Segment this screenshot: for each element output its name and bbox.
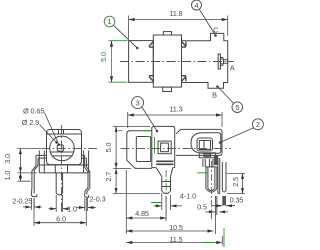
side body left part xyxy=(127,131,152,169)
arrows 4-1.0 xyxy=(156,204,162,207)
front shield side plates xyxy=(39,151,88,173)
svg-text:10.5: 10.5 xyxy=(169,223,183,232)
side power pin centerline xyxy=(210,161,212,219)
0.5 dim xyxy=(205,196,228,215)
svg-text:A: A xyxy=(230,64,235,73)
dim 5.0 top view (green) xyxy=(109,41,128,82)
svg-text:2-0.25: 2-0.25 xyxy=(12,196,32,205)
svg-text:11.8: 11.8 xyxy=(169,9,182,18)
arrows 4.85 xyxy=(126,216,132,219)
flat strip terminal 1 xyxy=(218,158,220,194)
center pin hole xyxy=(57,145,63,151)
tube extension lines xyxy=(162,193,171,210)
side center block xyxy=(152,126,175,167)
switch rounded body xyxy=(191,133,221,153)
arrows 0.5 xyxy=(209,210,215,213)
11.5 dim xyxy=(126,236,222,246)
flat strip terminal 2 xyxy=(222,162,226,192)
arrows 11.5 xyxy=(126,241,132,244)
right housing section (top view) xyxy=(182,33,228,88)
front top notch xyxy=(59,130,64,135)
svg-text:2.7: 2.7 xyxy=(104,172,113,182)
thick shadow bars above funnel xyxy=(156,161,173,164)
svg-text:0.35: 0.35 xyxy=(230,195,244,204)
svg-text:5.0: 5.0 xyxy=(99,52,108,62)
round power pin (side view) xyxy=(203,159,217,192)
front center pin tube xyxy=(56,173,62,195)
svg-text:1: 1 xyxy=(108,17,112,26)
arrows front left stack xyxy=(19,149,22,155)
switch contact rect with divider xyxy=(199,141,210,150)
arrows 11.3 xyxy=(128,113,134,116)
arrows 0.35 xyxy=(216,204,222,207)
side 5.0/2.7 dims xyxy=(113,126,160,193)
svg-text:11.3: 11.3 xyxy=(169,104,182,113)
balloon 1 xyxy=(104,16,115,27)
center shield block (top view) xyxy=(153,35,181,87)
0.35 dim xyxy=(212,205,235,207)
leader lines for diameters xyxy=(40,113,59,145)
side right switch housing xyxy=(176,129,222,155)
arrows 2-0.3 xyxy=(79,206,85,209)
arrows 11.8 xyxy=(129,18,135,21)
hatch bar below strip2 xyxy=(222,196,226,206)
small tab under body xyxy=(199,153,215,158)
svg-text:2-0.3: 2-0.3 xyxy=(89,195,105,204)
side 11.3 dim xyxy=(128,112,222,128)
right spring leg (front view) xyxy=(82,155,90,197)
corner gusset top-left xyxy=(149,42,153,48)
arrows 10.5 xyxy=(126,229,132,232)
arrows 1.0 xyxy=(50,207,56,210)
switch window inner xyxy=(197,138,213,151)
corner gusset top-right xyxy=(182,42,186,48)
arrows 6.0 xyxy=(34,221,40,224)
arrows 5.0 top (vertical) xyxy=(110,41,113,47)
corner gusset bottom-right xyxy=(182,76,186,82)
shoulder bar xyxy=(214,156,218,165)
arrows 2.5 xyxy=(241,173,244,179)
bottom tab of shield xyxy=(163,87,172,91)
4-1.0 dim xyxy=(154,205,183,207)
svg-text:5: 5 xyxy=(235,103,239,112)
green dots on centerlines xyxy=(120,61,234,63)
svg-text:0.5: 0.5 xyxy=(197,203,207,212)
balloon 3 xyxy=(132,97,144,109)
lower chord line xyxy=(52,155,73,157)
corner gusset bottom-left xyxy=(149,76,153,82)
inner contact square (side view) xyxy=(158,141,171,154)
10.5 dim xyxy=(126,196,215,234)
svg-text:B: B xyxy=(212,90,217,99)
side left window xyxy=(136,137,150,162)
pin tube (side view) xyxy=(162,177,171,194)
front inner top line xyxy=(47,133,81,135)
arrows side 5.0/2.7 xyxy=(115,126,118,131)
svg-text:2.5: 2.5 xyxy=(231,177,240,187)
funnel to pin tube xyxy=(156,168,173,177)
left spring leg (front view) xyxy=(31,155,46,196)
svg-text:3: 3 xyxy=(136,98,140,107)
4.85 dim xyxy=(126,170,166,221)
top view centerline xyxy=(120,61,234,63)
balloon 4 xyxy=(192,0,202,10)
arrows 2-0.25 xyxy=(26,206,32,209)
1.0 pin dim lines xyxy=(49,208,68,210)
svg-text:6.0: 6.0 xyxy=(56,215,66,224)
svg-text:Ø 0.65: Ø 0.65 xyxy=(23,106,44,115)
block bottom edge xyxy=(152,167,175,169)
svg-text:Ø 2.9: Ø 2.9 xyxy=(22,118,39,127)
dim 11.8 ext+line xyxy=(129,16,228,39)
dots for leaders xyxy=(58,144,60,146)
pin width extension lines xyxy=(56,195,62,212)
svg-text:5.0: 5.0 xyxy=(104,142,113,152)
barrel circle xyxy=(50,136,75,161)
balloon 2 xyxy=(252,119,263,130)
front left dims ext xyxy=(18,149,42,182)
svg-text:4-1.0: 4-1.0 xyxy=(180,192,196,201)
front body rounded square xyxy=(47,130,82,165)
svg-text:4.85: 4.85 xyxy=(135,209,149,218)
6.0 dim xyxy=(34,198,86,226)
barrel rect (top view) xyxy=(129,41,154,83)
svg-text:C: C xyxy=(213,26,218,35)
top tab of shield xyxy=(163,32,171,35)
2.5 dim xyxy=(227,173,245,193)
svg-text:1.0: 1.0 xyxy=(67,204,77,213)
svg-text:2: 2 xyxy=(256,120,260,129)
svg-text:11.5: 11.5 xyxy=(169,235,182,244)
green dim fragments xyxy=(118,131,224,247)
side pin centerline xyxy=(165,170,167,220)
chord line xyxy=(50,151,74,153)
front+side horizontal centerline xyxy=(42,147,100,149)
2-0.3 dim xyxy=(76,198,96,211)
balloon 5 xyxy=(232,102,243,113)
front vertical centerline xyxy=(61,125,63,213)
pin clip at back (node A area) xyxy=(218,54,220,69)
svg-text:3.0: 3.0 xyxy=(3,154,12,164)
svg-text:1.0: 1.0 xyxy=(3,171,12,181)
svg-text:4: 4 xyxy=(195,1,199,10)
tube tick lines xyxy=(162,182,171,187)
2-0.25 dim xyxy=(23,198,42,210)
